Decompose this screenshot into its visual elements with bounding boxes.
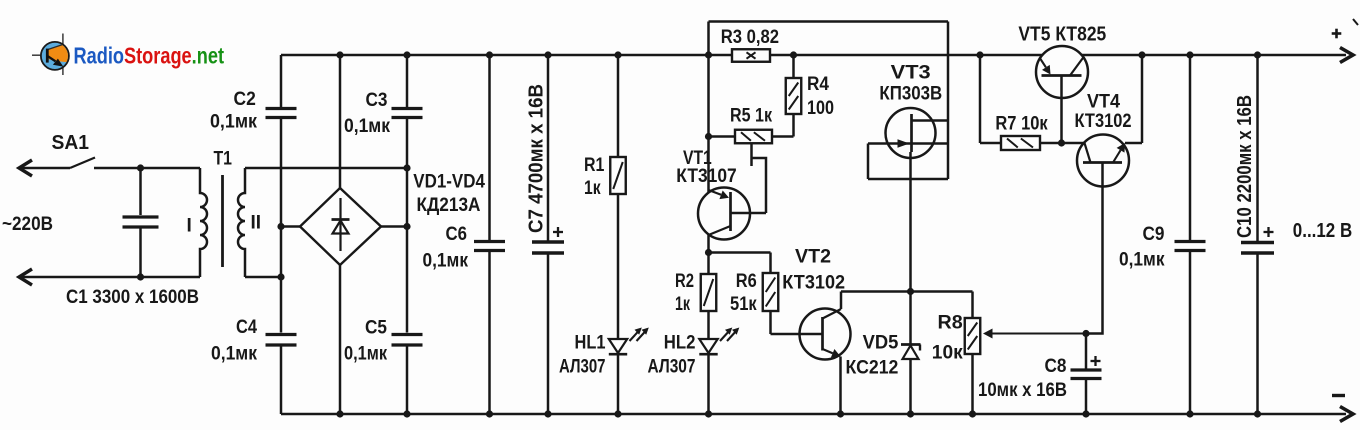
svg-text:10мк x 16В: 10мк x 16В (978, 380, 1067, 401)
svg-text:II: II (251, 213, 262, 234)
svg-text:VT4: VT4 (1087, 92, 1120, 113)
svg-text:VD1-VD4: VD1-VD4 (413, 172, 485, 193)
svg-text:VT5 КТ825: VT5 КТ825 (1018, 22, 1106, 45)
svg-text:R1: R1 (584, 155, 605, 176)
svg-text:C5: C5 (365, 318, 387, 339)
svg-text:T1: T1 (214, 149, 233, 170)
svg-text:R2: R2 (675, 271, 694, 292)
svg-text:C2: C2 (234, 89, 256, 110)
svg-text:КС212: КС212 (846, 358, 899, 379)
svg-text:~220В: ~220В (2, 214, 53, 235)
svg-text:10к: 10к (932, 342, 963, 363)
svg-text:КТ3107: КТ3107 (676, 166, 736, 187)
svg-text:0,1мк: 0,1мк (211, 344, 257, 365)
svg-text:КТ3102: КТ3102 (1075, 111, 1132, 132)
svg-text:C7 4700мк x 16В: C7 4700мк x 16В (526, 84, 548, 233)
svg-text:0,1мк: 0,1мк (344, 344, 387, 365)
svg-text:R6: R6 (736, 271, 757, 292)
svg-text:1к: 1к (675, 294, 690, 315)
svg-text:C10 2200мк x 16В: C10 2200мк x 16В (1234, 95, 1256, 238)
svg-text:SA1: SA1 (52, 132, 90, 154)
svg-text:C8: C8 (1045, 356, 1067, 377)
svg-text:КТ3102: КТ3102 (782, 273, 845, 294)
svg-text:HL2: HL2 (664, 332, 696, 353)
svg-text:R5 1к: R5 1к (730, 106, 772, 127)
svg-text:C1 3300 x 1600В: C1 3300 x 1600В (66, 287, 199, 308)
svg-text:VT3: VT3 (891, 63, 931, 84)
svg-text:C6: C6 (446, 224, 468, 245)
svg-text:0,1мк: 0,1мк (344, 116, 390, 137)
svg-text:C3: C3 (366, 90, 388, 111)
svg-text:RadioStorage.net: RadioStorage.net (74, 42, 225, 68)
svg-text:R4: R4 (807, 74, 829, 95)
svg-text:51к: 51к (730, 294, 757, 315)
svg-text:100: 100 (807, 98, 834, 119)
svg-text:C9: C9 (1143, 224, 1165, 245)
svg-text:C4: C4 (236, 317, 257, 338)
svg-text:I: I (187, 216, 192, 237)
svg-text:АЛ307: АЛ307 (648, 357, 696, 378)
svg-text:R7 10к: R7 10к (995, 114, 1048, 135)
svg-text:R3 0,82: R3 0,82 (721, 27, 779, 48)
svg-text:0,1мк: 0,1мк (210, 112, 257, 133)
svg-text:1к: 1к (584, 178, 601, 199)
svg-text:КД213А: КД213А (417, 195, 481, 216)
svg-text:АЛ307: АЛ307 (559, 357, 606, 378)
svg-text:HL1: HL1 (575, 332, 606, 353)
svg-text:R8: R8 (938, 312, 963, 333)
svg-text:КП303В: КП303В (879, 84, 942, 105)
svg-text:0,1мк: 0,1мк (1119, 250, 1165, 271)
svg-text:0,1мк: 0,1мк (423, 251, 469, 272)
svg-text:0...12 В: 0...12 В (1293, 219, 1352, 242)
svg-text:VT2: VT2 (795, 247, 831, 268)
svg-text:VD5: VD5 (863, 333, 899, 354)
